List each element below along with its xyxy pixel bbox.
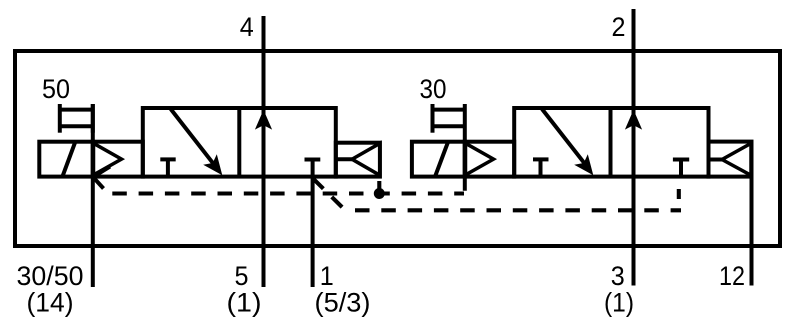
svg-text:1: 1	[320, 261, 334, 291]
valve V2 body	[514, 108, 708, 177]
solenoid S1 box	[39, 142, 93, 177]
svg-text:30: 30	[420, 74, 447, 104]
svg-text:4: 4	[240, 12, 254, 42]
pilot triangle V1	[94, 143, 122, 175]
flow arrow V1 left cell	[171, 109, 223, 175]
air return R1 mid line	[336, 157, 352, 161]
manual override 30 bracket	[433, 104, 465, 133]
flow arrow V2 left cell	[542, 109, 593, 175]
svg-text:50: 50	[42, 74, 70, 104]
air return R1 box	[336, 143, 380, 177]
pilot arrow at V1 corner	[93, 167, 110, 189]
enclosure border	[15, 51, 780, 246]
svg-text:(14): (14)	[27, 288, 74, 318]
flow arrow V1 right cell (up)	[255, 110, 272, 130]
pilot cell V1 box	[93, 142, 143, 177]
pilot dash stub right	[677, 189, 681, 199]
blocked port T V2 left cell	[533, 159, 549, 176]
pilot cell V2 box	[465, 142, 514, 177]
valve V1 center divider	[237, 108, 241, 177]
pilot dashed diagonal from port 1	[313, 179, 345, 211]
wire port 30/50 (14) vertical line	[91, 104, 95, 287]
pilot triangle V2	[466, 143, 494, 175]
wire port 30 stub	[463, 104, 467, 191]
valve V2 center divider	[609, 108, 613, 177]
svg-text:30/50: 30/50	[17, 261, 84, 291]
pilot dash stub above junction	[377, 181, 381, 190]
air return R2 triangle	[722, 143, 751, 175]
wire port 1 (5/3) vertical line	[311, 161, 315, 287]
pilot dashed line upper	[112, 191, 464, 195]
wire port 12 vertical line	[750, 177, 754, 286]
svg-text:5: 5	[235, 261, 249, 291]
svg-text:(5/3): (5/3)	[315, 288, 371, 318]
wire port 2/3 vertical line	[632, 9, 636, 286]
svg-text:(1): (1)	[227, 288, 262, 318]
manual override 50 bracket	[60, 104, 93, 133]
flow arrow V2 right cell (up)	[625, 110, 642, 130]
solenoid S2 diagonal	[435, 142, 448, 177]
svg-text:(1): (1)	[604, 288, 634, 318]
solenoid S1 diagonal	[62, 142, 75, 177]
svg-text:12: 12	[719, 261, 745, 291]
air return R1 triangle	[352, 143, 380, 175]
wire port 4/5 vertical line	[262, 16, 266, 287]
junction dot	[374, 188, 385, 199]
solenoid S2 box	[412, 142, 465, 177]
svg-text:3: 3	[611, 261, 625, 291]
valve V1 body	[143, 108, 336, 177]
svg-text:2: 2	[612, 12, 626, 42]
air return R2 mid line	[709, 158, 723, 162]
air return R2 box	[709, 142, 752, 177]
blocked port T V1 right cell	[305, 158, 321, 162]
blocked port T V1 left cell	[160, 159, 175, 176]
blocked port T V2 right cell	[673, 160, 689, 177]
pilot dashed line lower	[355, 208, 681, 212]
